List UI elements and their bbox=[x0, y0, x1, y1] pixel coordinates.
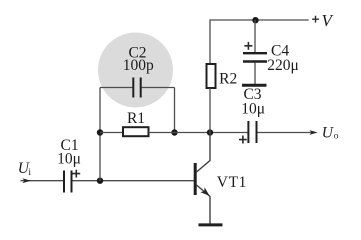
capacitor C2 bbox=[132, 78, 134, 98]
wire left vertical of feedback loop bbox=[99, 88, 101, 181]
svg-text:10μ: 10μ bbox=[241, 101, 265, 118]
svg-text:220μ: 220μ bbox=[267, 57, 299, 74]
wire right vertical of loop bbox=[174, 88, 176, 133]
highlight circle around C2 bbox=[98, 33, 173, 108]
input arrow bbox=[22, 178, 30, 183]
svg-text:V: V bbox=[322, 11, 335, 30]
transistor VT1 base bar bbox=[194, 163, 197, 195]
polarity + of C4 bbox=[244, 42, 252, 50]
svg-text:VT1: VT1 bbox=[217, 174, 247, 191]
node dot input/feedback junction bbox=[97, 178, 103, 184]
svg-text:i: i bbox=[28, 168, 31, 178]
wire C4 bottom lead bbox=[254, 63, 256, 85]
node dot top rail bbox=[252, 17, 258, 23]
capacitor C3 bbox=[247, 121, 249, 143]
ground for C4 bbox=[242, 84, 267, 87]
node dot R1 left bbox=[97, 129, 103, 135]
wire input Ui bbox=[21, 180, 64, 182]
resistor R1 bbox=[123, 127, 149, 136]
svg-text:R1: R1 bbox=[127, 110, 145, 127]
node dot R1 right bbox=[171, 129, 177, 135]
capacitor C1 bbox=[63, 171, 65, 193]
svg-text:R2: R2 bbox=[219, 70, 237, 87]
wire output bbox=[258, 132, 312, 134]
capacitor C4 bbox=[243, 52, 267, 54]
resistor R2 bbox=[207, 64, 216, 88]
wire collector lead bbox=[197, 133, 211, 173]
node dot collector junction bbox=[207, 129, 213, 135]
wire C2 row left bbox=[100, 87, 133, 89]
polarity + of C3 bbox=[239, 136, 247, 144]
label +V bbox=[312, 16, 319, 23]
wire C4 top lead bbox=[254, 20, 256, 52]
wire C2 row right bbox=[142, 87, 175, 89]
polarity + of C1 bbox=[72, 170, 80, 178]
emitter arrow bbox=[200, 187, 209, 196]
wire C1 to base bbox=[73, 180, 195, 182]
wire R2 bottom lead bbox=[209, 88, 211, 133]
wire top rail bbox=[210, 20, 309, 64]
svg-text:o: o bbox=[334, 131, 339, 141]
ground for emitter bbox=[199, 223, 223, 226]
wire R1 left lead bbox=[100, 132, 123, 134]
svg-text:10μ: 10μ bbox=[57, 151, 81, 168]
wire R1 right to C3 bbox=[149, 132, 248, 134]
output arrow bbox=[309, 130, 317, 135]
svg-text:100p: 100p bbox=[123, 57, 154, 74]
wire emitter lead bbox=[197, 185, 211, 224]
